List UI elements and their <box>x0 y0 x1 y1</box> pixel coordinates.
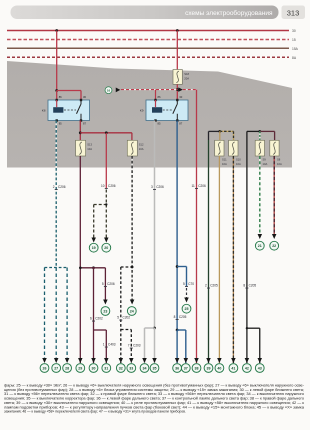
junction bus30/S18 feed <box>176 29 179 32</box>
node 31 <box>102 364 111 373</box>
svg-text:света; 39 — к выводу «30» выкл: света; 39 — к выводу «30» выключателя на… <box>4 401 305 405</box>
svg-text:лампам подсветки приборов; 43: лампам подсветки приборов; 43 — к регуля… <box>4 405 304 409</box>
wire to circle 37 <box>184 330 187 363</box>
junction K8 feed split <box>55 89 58 92</box>
svg-text:38: 38 <box>195 366 199 370</box>
arrow to 32 <box>119 358 124 363</box>
wire K8 pin87 down <box>79 121 82 141</box>
svg-text:25: 25 <box>185 307 189 311</box>
svg-text:22: 22 <box>272 244 276 248</box>
svg-text:C70: C70 <box>188 282 194 286</box>
svg-text:30: 30 <box>292 29 296 33</box>
arrow to 36 <box>175 358 180 363</box>
junction S11 tap <box>218 130 221 133</box>
junction grey split <box>153 327 156 330</box>
arrow to 41 <box>231 358 236 363</box>
svg-text:86: 86 <box>59 95 62 99</box>
svg-text:24: 24 <box>130 309 134 313</box>
wire dashed to 11 C206 drop <box>183 88 197 90</box>
arrow to 19 <box>91 238 96 243</box>
junction bus30/K8 feed <box>55 29 58 32</box>
svg-text:освещения; 35 — к выключателю: освещения; 35 — к выключателю корректора… <box>4 397 304 401</box>
wire to K8 pin30 <box>57 89 81 92</box>
wire to circle 31 <box>105 330 108 363</box>
label 11 C206 <box>191 184 206 189</box>
arrow to 25 <box>184 298 189 303</box>
label 6 C202 <box>90 317 103 322</box>
arrow to 23 <box>103 300 108 305</box>
arrow to 43 <box>258 358 263 363</box>
label 5 C206 <box>102 282 115 287</box>
svg-text:8: 8 <box>174 315 176 319</box>
svg-text:C202: C202 <box>123 316 131 320</box>
label 8 C205 black <box>243 284 256 289</box>
header bar <box>11 6 279 20</box>
wire K8 pin85 teal <box>55 121 58 268</box>
junction S12 split <box>131 266 134 269</box>
node 42 <box>243 364 252 373</box>
svg-text:26: 26 <box>43 366 47 370</box>
arrow to 26 <box>42 358 47 363</box>
svg-text:S10: S10 <box>236 158 241 162</box>
svg-text:85: 85 <box>59 122 62 126</box>
junction blue branch <box>176 265 179 268</box>
wire 10 C206 <box>105 133 108 188</box>
svg-text:C206: C206 <box>58 185 66 189</box>
node 30 <box>89 364 98 373</box>
node 36 <box>173 364 182 373</box>
arrow to 40 <box>217 358 222 363</box>
svg-text:20: 20 <box>104 246 108 250</box>
svg-text:10A: 10A <box>263 162 268 166</box>
svg-text:16: 16 <box>107 88 111 92</box>
wire to circle 35 <box>153 328 156 363</box>
svg-text:10A: 10A <box>87 147 92 151</box>
arrow to 37 <box>184 358 189 363</box>
wire S10 output dashed <box>232 156 235 363</box>
node 38 <box>192 364 201 373</box>
node 37 <box>181 364 190 373</box>
arrow to 27 <box>54 358 59 363</box>
node 33 <box>127 364 136 373</box>
svg-text:C205: C205 <box>249 284 257 288</box>
label 1 C403 <box>103 343 116 348</box>
wire teal branch b <box>55 268 58 364</box>
arrow to 22 <box>272 234 277 239</box>
wire K9 pin87 blue <box>176 121 179 331</box>
node 21 <box>255 241 264 250</box>
fuse S18 20A <box>173 70 190 85</box>
node 24 <box>127 307 136 316</box>
branch to circle 43 <box>247 327 260 330</box>
svg-text:S9: S9 <box>263 158 267 162</box>
page number box <box>282 6 306 20</box>
svg-text:8: 8 <box>243 284 245 288</box>
label 7 C203 <box>128 344 141 349</box>
svg-text:2: 2 <box>53 185 55 189</box>
fuse S11 10A <box>215 140 227 166</box>
wire bus30 to S18 <box>176 31 179 70</box>
svg-text:5: 5 <box>102 282 104 286</box>
arrow to 28 <box>65 358 70 363</box>
svg-text:33: 33 <box>129 366 133 370</box>
wire K9 pin85 white <box>153 121 156 329</box>
svg-text:10A: 10A <box>139 147 144 151</box>
svg-text:S13: S13 <box>87 143 92 147</box>
svg-text:36: 36 <box>175 366 179 370</box>
svg-text:11: 11 <box>191 184 195 188</box>
wire S9 output green dashed <box>258 156 261 235</box>
wire 6 C202 branch <box>92 268 95 363</box>
wire to circle 34 <box>143 328 146 363</box>
arrow to 38 <box>194 358 199 363</box>
svg-text:23: 23 <box>103 309 107 313</box>
svg-text:C206: C206 <box>198 184 206 188</box>
wire S11 output tan <box>218 156 221 363</box>
wire 8 C205 black down <box>246 131 249 363</box>
svg-text:42: 42 <box>245 366 249 370</box>
fuse feed bus <box>80 132 132 135</box>
svg-text:7: 7 <box>128 344 130 348</box>
svg-text:C203: C203 <box>133 344 141 348</box>
svg-text:41: 41 <box>231 366 235 370</box>
svg-text:10A: 10A <box>277 162 282 166</box>
svg-text:щения (без противотуманных фар: щения (без противотуманных фар); 28 — к … <box>4 388 304 392</box>
bus 30 line <box>7 29 289 32</box>
svg-text:C205: C205 <box>179 315 187 319</box>
svg-text:6: 6 <box>90 317 92 321</box>
relay K8 <box>42 95 90 125</box>
arrow to 42 <box>245 358 250 363</box>
node 28 <box>63 364 72 373</box>
label 2 C206 <box>53 185 66 190</box>
fuse bus pair 2 <box>247 130 261 133</box>
tick into S9 <box>258 131 261 140</box>
wire dashed to circles 19/20 <box>105 190 108 240</box>
svg-text:37: 37 <box>184 366 188 370</box>
svg-text:S8: S8 <box>277 158 281 162</box>
bus 15 line <box>7 38 289 41</box>
wire bus30 to K8 <box>55 31 58 91</box>
svg-text:C403: C403 <box>108 343 116 347</box>
fuse S12 10A <box>127 140 144 156</box>
svg-text:32: 32 <box>119 366 123 370</box>
svg-text:3: 3 <box>151 185 153 189</box>
fuse S13 10A <box>76 140 93 156</box>
arrow to 30 <box>91 358 96 363</box>
svg-text:10: 10 <box>101 184 105 188</box>
bus 15A line <box>7 47 289 50</box>
arrow to 39 <box>206 358 211 363</box>
svg-text:K9: K9 <box>140 109 144 113</box>
junction maroon split <box>92 266 95 269</box>
relay K9 <box>140 95 188 125</box>
junction S18 output <box>176 88 179 91</box>
svg-text:29: 29 <box>78 366 82 370</box>
svg-text:5: 5 <box>183 282 185 286</box>
svg-text:20A: 20A <box>184 77 189 81</box>
junction blue split <box>176 329 179 332</box>
node 20 <box>102 243 111 252</box>
label 10 C206 <box>101 184 116 189</box>
wire teal branch a <box>43 268 46 364</box>
node 27 <box>52 364 61 373</box>
svg-text:15A: 15A <box>292 47 299 51</box>
svg-text:40: 40 <box>217 366 221 370</box>
teal split <box>45 266 68 269</box>
node 39 <box>204 364 213 373</box>
wire S13 output maroon <box>79 156 82 363</box>
arrow to 24 <box>130 300 135 305</box>
fuse bus pair 1 <box>207 131 210 140</box>
svg-text:5: 5 <box>117 316 119 320</box>
arrow to 33 <box>129 358 134 363</box>
junction fuse bus <box>79 131 82 134</box>
node 23 <box>101 307 110 316</box>
svg-text:C206: C206 <box>108 184 116 188</box>
svg-text:30: 30 <box>179 95 182 99</box>
svg-text:схемы электрооборудования: схемы электрооборудования <box>185 9 273 17</box>
arrow from circle 16 <box>116 87 121 92</box>
wire 2 C205 down to circle 39 <box>207 140 210 363</box>
svg-text:10A: 10A <box>236 162 241 166</box>
junction 10 C206 tap <box>105 131 108 134</box>
junction 42/43 split <box>246 327 248 329</box>
svg-text:K8: K8 <box>42 109 46 113</box>
junction S9 tap <box>258 130 261 133</box>
svg-text:31 — к выводу «56» переключате: 31 — к выводу «56» переключателя света ф… <box>4 392 304 396</box>
svg-text:31: 31 <box>104 366 108 370</box>
node 34 <box>140 364 149 373</box>
label 5 C70 <box>183 282 194 287</box>
svg-text:15: 15 <box>292 38 296 42</box>
arrow continuation right <box>178 87 183 92</box>
svg-text:1: 1 <box>103 343 105 347</box>
node 19 <box>89 243 98 252</box>
wire 5 C202 down <box>120 267 123 363</box>
wire S8 output dark dashed <box>273 156 276 235</box>
arrow to 31 <box>104 358 109 363</box>
junction 19/20 split <box>105 203 107 205</box>
svg-text:10A: 10A <box>222 162 227 166</box>
svg-text:30: 30 <box>83 95 86 99</box>
node 26 <box>40 364 49 373</box>
arrow to 20 <box>104 238 109 243</box>
node 25 <box>182 304 191 313</box>
wire to circle 23 <box>104 268 107 300</box>
node 22 <box>270 241 279 250</box>
svg-text:28: 28 <box>65 366 69 370</box>
wire to K8 pin86 <box>55 91 58 108</box>
svg-text:C202: C202 <box>95 317 103 321</box>
wire to circle 25 <box>185 267 188 287</box>
wire 11 C206 down to circle 38 <box>195 90 198 363</box>
node 29 <box>76 364 85 373</box>
wire to K9 pin86 <box>154 90 156 100</box>
svg-text:86: 86 <box>158 95 161 99</box>
wire teal branch c <box>66 268 69 364</box>
svg-text:21: 21 <box>258 244 262 248</box>
branch 7 C203 <box>121 328 132 331</box>
fuse S10 10A <box>229 140 242 166</box>
svg-text:2: 2 <box>205 284 207 288</box>
svg-text:35: 35 <box>153 366 157 370</box>
svg-text:S12: S12 <box>139 143 144 147</box>
svg-text:87: 87 <box>179 122 182 126</box>
svg-text:S18: S18 <box>184 72 189 76</box>
svg-text:313: 313 <box>287 9 300 18</box>
svg-text:C205: C205 <box>210 284 218 288</box>
label 5 C202 <box>117 316 130 321</box>
label 8 C205 blue <box>174 315 187 320</box>
svg-text:43: 43 <box>258 366 262 370</box>
fuse S9 10A <box>255 140 267 166</box>
node 43 <box>255 364 264 373</box>
svg-text:30: 30 <box>92 366 96 370</box>
svg-text:27: 27 <box>54 366 58 370</box>
wire to circle 33 <box>130 330 133 364</box>
node 35 <box>150 364 159 373</box>
wire S18 to K9 pin30 <box>176 84 179 100</box>
node 16 <box>105 87 112 94</box>
svg-text:34: 34 <box>143 366 147 370</box>
svg-text:C206: C206 <box>107 282 115 286</box>
svg-text:87: 87 <box>83 122 86 126</box>
node 32 <box>116 364 125 373</box>
label 3 C206 <box>151 185 164 190</box>
tick into S11 <box>219 131 222 140</box>
wire to circle 36 <box>176 330 179 363</box>
maroon branch bus <box>80 266 105 269</box>
svg-text:зажигания; 46 — к выводу «58»: зажигания; 46 — к выводу «58» переключат… <box>4 410 186 414</box>
arrow to 35 <box>152 358 157 363</box>
branch at C403 <box>94 329 107 332</box>
bus 8A line <box>7 56 289 59</box>
svg-text:фары: 25 — к выводу «30» ЭБУ;: фары: 25 — к выводу «30» ЭБУ; 26 — к выв… <box>4 384 304 388</box>
node 41 <box>229 364 238 373</box>
node 40 <box>215 364 224 373</box>
wire S18 to circle 16 (dashed) <box>121 88 177 90</box>
svg-text:C206: C206 <box>156 185 164 189</box>
svg-text:S11: S11 <box>222 158 227 162</box>
svg-text:39: 39 <box>207 366 211 370</box>
arrow to 21 <box>258 234 263 239</box>
arrow to 34 <box>142 358 147 363</box>
svg-text:85: 85 <box>158 122 161 126</box>
arrow to 29 <box>78 358 83 363</box>
svg-text:19: 19 <box>92 246 96 250</box>
fuse S8 10A <box>270 140 282 166</box>
wire S12 output dashed <box>131 156 134 300</box>
label 2 C205 <box>205 284 218 289</box>
